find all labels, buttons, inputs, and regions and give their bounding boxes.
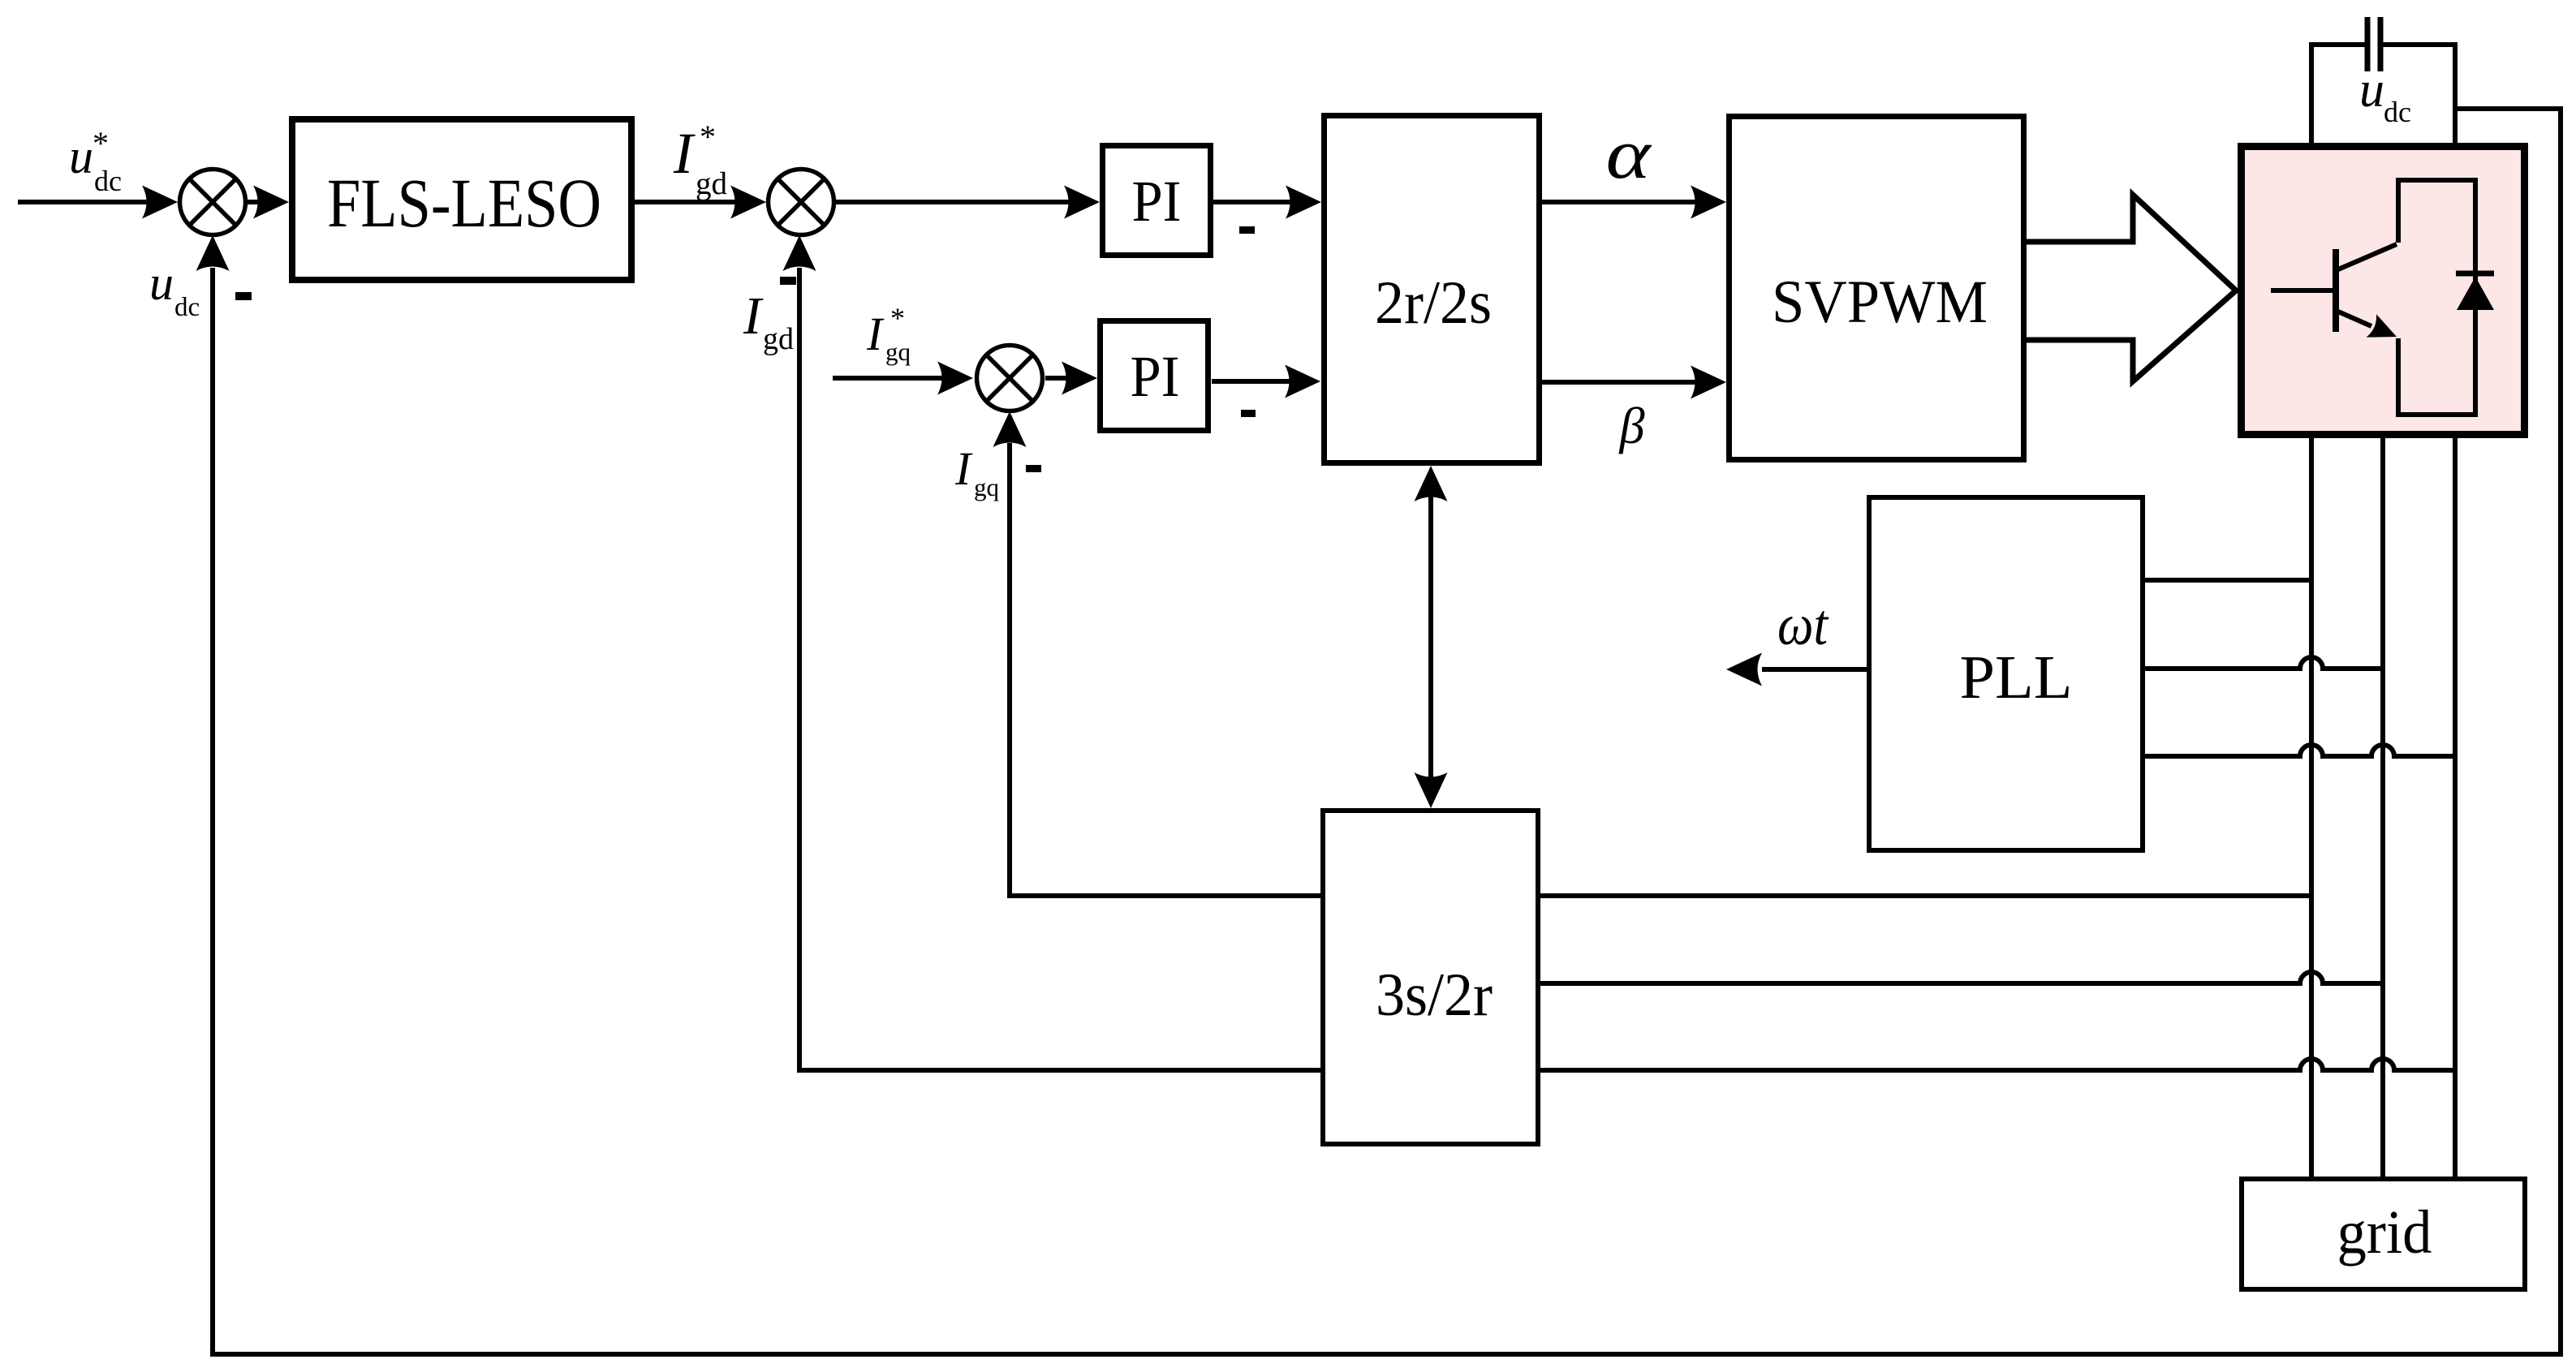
svg-text:ωt: ωt (1777, 592, 1829, 657)
svg-text:PI: PI (1131, 344, 1180, 409)
svg-text:*: * (93, 125, 109, 161)
svg-text:gd: gd (696, 166, 728, 201)
svg-text:gq: gq (974, 473, 999, 501)
svg-text:I: I (866, 308, 885, 360)
svg-text:PLL: PLL (1960, 643, 2073, 712)
svg-text:2r/2s: 2r/2s (1375, 269, 1492, 337)
svg-text:grid: grid (2337, 1198, 2432, 1267)
svg-text:3s/2r: 3s/2r (1376, 961, 1493, 1029)
svg-text:u: u (69, 130, 93, 183)
svg-text:SVPWM: SVPWM (1772, 269, 1988, 336)
svg-text:I: I (743, 286, 764, 346)
svg-text:u: u (2359, 62, 2384, 118)
svg-text:FLS-LESO: FLS-LESO (327, 164, 601, 242)
svg-text:I: I (954, 442, 973, 495)
svg-text:u: u (149, 256, 174, 310)
svg-text:gq: gq (885, 338, 911, 366)
svg-text:PI: PI (1132, 169, 1182, 234)
svg-text:β: β (1618, 397, 1645, 454)
svg-text:dc: dc (94, 165, 122, 197)
svg-text:gd: gd (763, 322, 794, 356)
svg-text:*: * (700, 118, 716, 155)
svg-text:I: I (673, 121, 696, 186)
svg-text:*: * (890, 302, 905, 334)
svg-text:dc: dc (2384, 96, 2411, 128)
svg-text:α: α (1606, 115, 1652, 194)
svg-text:dc: dc (174, 293, 200, 322)
